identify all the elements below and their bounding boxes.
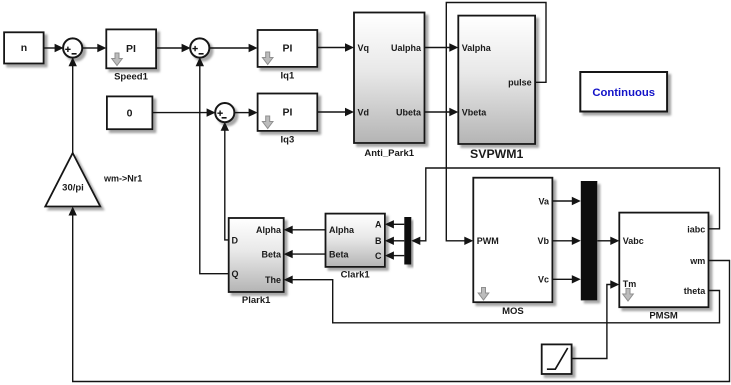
svg-text:wm->Nr1: wm->Nr1 (103, 173, 142, 183)
PI controller Iq3 (258, 94, 318, 131)
wire PMSM iabc feedback to demux (411, 168, 719, 245)
svg-text:PWM: PWM (477, 236, 499, 246)
svg-text:A: A (375, 220, 382, 230)
subsystem MOS (473, 178, 552, 303)
svg-text:Vc: Vc (538, 275, 549, 285)
wire MOS Vb to mux (552, 237, 580, 245)
wire Speed1 to sum S2 (156, 44, 191, 52)
wire pulse feedback loop to MOS PWM (446, 3, 546, 246)
wire Iq1 to Anti_Park1 Vq (317, 43, 354, 51)
ramp block torque (542, 344, 572, 374)
svg-text:The: The (265, 275, 281, 285)
wire Clark1 Beta to Plark1 Beta (284, 250, 326, 258)
label Clark1 (341, 269, 371, 280)
sum junction S1 (63, 38, 82, 57)
demux bar for Clark1 inputs (404, 217, 411, 265)
svg-text:iabc: iabc (687, 224, 705, 234)
label Plark1 (242, 295, 271, 306)
label PMSM (649, 310, 678, 321)
svg-text:PI: PI (282, 43, 292, 55)
svg-text:Valpha: Valpha (462, 43, 492, 53)
subsystem Clark1 (326, 214, 385, 267)
wire 0 to sum S3 (152, 108, 215, 116)
svg-text:Tm: Tm (623, 279, 637, 289)
wire Ualpha to SVPWM1 Valpha (425, 43, 459, 51)
svg-text:Speed1: Speed1 (114, 72, 149, 83)
svg-text:C: C (375, 251, 382, 261)
wire Clark1 Alpha to Plark1 Alpha (284, 226, 326, 234)
svg-text:Va: Va (538, 196, 550, 206)
svg-text:wm: wm (689, 256, 705, 266)
svg-text:30/pi: 30/pi (62, 183, 84, 194)
svg-text:Ubeta: Ubeta (396, 107, 422, 117)
mask badge arrow Speed1 (112, 53, 123, 66)
svg-text:Vb: Vb (537, 236, 549, 246)
svg-text:PI: PI (282, 106, 292, 118)
mask badge arrow PMSM (623, 289, 634, 302)
gain triangle 30/pi (45, 153, 100, 207)
wire S2 to Iq1 (209, 44, 258, 52)
wire Iq3 to Anti_Park1 Vd (317, 108, 354, 116)
wire demux to Clark1 C (385, 251, 404, 259)
subsystem Plark1 (229, 218, 284, 292)
svg-text:Vbeta: Vbeta (462, 107, 488, 117)
svg-text:Ualpha: Ualpha (391, 43, 422, 53)
wire n to sum S1 (44, 44, 64, 52)
label Iq1 (281, 70, 295, 81)
svg-text:Alpha: Alpha (256, 225, 282, 235)
svg-text:Vabc: Vabc (623, 236, 644, 246)
wire gain output to sum S1 (69, 57, 77, 153)
wire MOS Vc to mux (552, 275, 580, 283)
svg-text:theta: theta (684, 286, 706, 296)
wire S1 to Speed1 (82, 44, 106, 52)
sum junction S2 (190, 38, 209, 57)
svg-text:n: n (21, 42, 27, 54)
svg-text:Vd: Vd (358, 107, 370, 117)
mask badge arrow MOS (478, 288, 489, 301)
svg-text:D: D (232, 235, 239, 245)
svg-text:Beta: Beta (329, 250, 350, 260)
svg-text:Iq1: Iq1 (281, 70, 295, 81)
wire MOS Va to mux (552, 197, 580, 205)
wire ramp to PMSM Tm (572, 280, 620, 358)
subsystem Anti_Park1 (354, 13, 425, 144)
constant block n (4, 32, 44, 63)
label MOS (502, 306, 524, 317)
svg-text:Vq: Vq (358, 43, 370, 53)
wire Plark1 Q to sum S2 (196, 57, 229, 274)
svg-text:0: 0 (127, 108, 133, 120)
svg-text:Clark1: Clark1 (341, 269, 371, 280)
label wm->Nr1 (103, 173, 142, 183)
svg-text:Iq3: Iq3 (281, 134, 295, 145)
subsystem PMSM (619, 213, 708, 308)
wire Ubeta to SVPWM1 Vbeta (425, 108, 459, 116)
svg-text:Anti_Park1: Anti_Park1 (364, 148, 414, 159)
subsystem SVPWM1 (458, 16, 535, 144)
svg-text:Plark1: Plark1 (242, 295, 271, 306)
mux bar for PMSM input (581, 181, 598, 300)
svg-text:Q: Q (232, 269, 239, 279)
PI controller Iq1 (258, 30, 318, 67)
wire S3 to Iq3 (234, 108, 258, 116)
svg-text:Alpha: Alpha (329, 225, 355, 235)
svg-text:pulse: pulse (508, 78, 532, 88)
label Iq3 (281, 134, 295, 145)
svg-text:PI: PI (126, 43, 136, 55)
wire PMSM theta feedback to Plark1 The (284, 276, 720, 323)
svg-text:MOS: MOS (502, 306, 524, 317)
annotation block Continuous (580, 72, 667, 112)
mask badge arrow Iq1 (262, 52, 273, 65)
svg-text:PMSM: PMSM (649, 310, 678, 321)
label Speed1 (114, 72, 149, 83)
label Anti_Park1 (364, 148, 414, 159)
PI controller Speed1 (106, 29, 156, 68)
svg-text:Beta: Beta (261, 250, 282, 260)
sum junction S3 (215, 103, 234, 122)
constant block 0 (107, 96, 152, 129)
svg-text:B: B (375, 236, 382, 246)
label SVPWM1 (470, 147, 523, 161)
svg-text:Continuous: Continuous (592, 87, 655, 99)
wire PMSM wm feedback to gain 30/pi (69, 207, 730, 382)
wire demux to Clark1 A (385, 220, 404, 228)
wire demux to Clark1 B (385, 237, 404, 245)
mask badge arrow Iq3 (262, 116, 273, 129)
wire mux to PMSM Vabc (597, 237, 619, 245)
wire Plark1 D to sum S3 (221, 122, 229, 240)
svg-text:SVPWM1: SVPWM1 (470, 147, 523, 161)
